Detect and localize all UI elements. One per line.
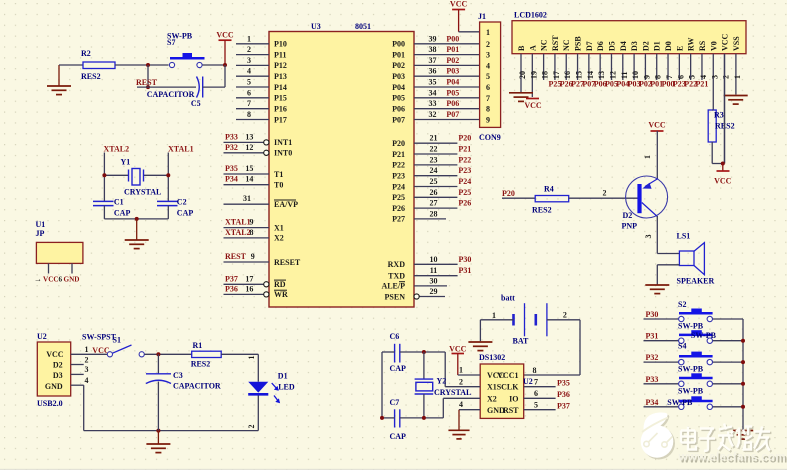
- LCD pin 8 D1: [650, 41, 663, 88]
- svg-text:8: 8: [533, 366, 537, 375]
- svg-text:1: 1: [643, 155, 652, 159]
- wire: C5 to VCC node: [203, 86, 225, 88]
- svg-text:1: 1: [247, 356, 256, 360]
- LCD pin 16 NC: [560, 39, 573, 88]
- junction: [156, 429, 160, 433]
- power VCC (transistor): [648, 121, 666, 132]
- pin 16 WR, net P36: [224, 284, 289, 299]
- display LCD1602: [512, 11, 746, 54]
- svg-text:6: 6: [534, 389, 538, 398]
- svg-text:SW-PB: SW-PB: [667, 398, 693, 407]
- svg-text:2: 2: [563, 311, 567, 320]
- svg-text:P22: P22: [458, 155, 471, 164]
- wire: ground to R2: [59, 64, 83, 66]
- svg-text:20: 20: [518, 71, 527, 79]
- svg-text:16: 16: [245, 284, 253, 293]
- svg-text:8051: 8051: [355, 22, 371, 31]
- svg-text:P26: P26: [458, 199, 471, 208]
- watermark logo: [641, 412, 675, 459]
- wire: GND down to rail: [83, 385, 85, 430]
- svg-text:9: 9: [486, 116, 490, 125]
- svg-text:RST: RST: [503, 406, 519, 415]
- capacitor C5: [147, 77, 203, 109]
- svg-text:32: 32: [429, 110, 437, 119]
- wire: crystal horizontal left: [104, 174, 128, 176]
- pin 35 P04, wire to J1: [392, 78, 479, 92]
- DS1302 pin 1: [458, 366, 480, 376]
- svg-text:A: A: [528, 45, 537, 51]
- wire: P34 to key: [644, 406, 679, 408]
- junction: [156, 352, 160, 356]
- LCD pin 9 D2: [639, 41, 652, 88]
- svg-text:P24: P24: [458, 177, 471, 186]
- power VCC (R3): [714, 164, 732, 186]
- svg-text:P37: P37: [225, 274, 238, 283]
- svg-text:P26: P26: [392, 204, 405, 213]
- svg-text:XTAL2: XTAL2: [225, 228, 251, 237]
- svg-text:P22: P22: [392, 161, 405, 170]
- svg-text:VCC: VCC: [524, 101, 542, 110]
- svg-text:P02: P02: [392, 61, 405, 70]
- svg-text:VCC: VCC: [648, 121, 666, 130]
- svg-text:RD: RD: [274, 280, 286, 289]
- pin 30 ALE/P: [381, 276, 447, 290]
- wire: VCC to J1 pin1: [459, 31, 480, 33]
- svg-text:P05: P05: [446, 88, 459, 97]
- svg-text:SCLK: SCLK: [497, 383, 520, 392]
- wire: node down to REST: [147, 65, 149, 87]
- wire: key to bus: [713, 340, 743, 342]
- pin 23 P22: [392, 155, 471, 169]
- svg-text:P10: P10: [274, 40, 287, 49]
- junction: [102, 173, 106, 177]
- wire: C6 left: [382, 351, 395, 353]
- svg-text:7: 7: [534, 378, 538, 387]
- junction: [741, 405, 745, 409]
- svg-text:V0: V0: [709, 41, 718, 51]
- svg-text:P33: P33: [646, 375, 659, 384]
- wire: LCD VCC pin down: [723, 54, 725, 164]
- LCD pin 7 D0: [662, 41, 675, 88]
- capacitor C2: [157, 198, 193, 218]
- svg-text:P34: P34: [646, 398, 659, 407]
- wire: R4 to base, pin 2: [569, 189, 638, 199]
- LCD pin 17 RST: [548, 35, 561, 89]
- svg-text:30: 30: [430, 276, 438, 285]
- pin 22 P21: [392, 145, 471, 159]
- IC DS1302: [479, 353, 524, 418]
- svg-text:33: 33: [429, 99, 437, 108]
- bottom edge line: [0, 469, 787, 470]
- wire: battery pin 1: [480, 311, 513, 320]
- power VCC (reset): [216, 31, 234, 66]
- svg-text:BAT: BAT: [513, 337, 530, 346]
- junction: [380, 416, 384, 420]
- svg-text:D4: D4: [619, 41, 628, 51]
- svg-text:C5: C5: [191, 99, 201, 108]
- ground (speaker): [645, 285, 669, 294]
- resistor R3: [708, 110, 734, 142]
- pin 17 RD, net P37: [224, 274, 287, 289]
- LCD pin 1 VSS: [732, 36, 742, 95]
- svg-text:DS1302: DS1302: [479, 353, 505, 362]
- svg-text:RS: RS: [698, 40, 707, 51]
- wire: C7 left + left riser: [382, 417, 395, 419]
- DS1302 pin 2: [445, 378, 480, 387]
- svg-text:10: 10: [631, 71, 640, 79]
- svg-text:RESET: RESET: [274, 258, 301, 267]
- U2 pin 2: [71, 355, 89, 364]
- svg-text:VCC: VCC: [450, 0, 468, 9]
- pin 9 RESET, net REST: [224, 252, 301, 267]
- wire: pin4 to ground: [458, 410, 460, 430]
- pin 2 P11: [236, 45, 286, 59]
- svg-text:5: 5: [247, 78, 251, 87]
- svg-text:X1: X1: [487, 383, 497, 392]
- pin 36 P03, wire to J1: [392, 67, 479, 81]
- svg-text:D2: D2: [623, 211, 633, 220]
- pin 18 X2, net XTAL2: [224, 228, 284, 243]
- svg-text:D2: D2: [53, 361, 63, 370]
- svg-text:WR: WR: [274, 290, 288, 299]
- svg-text:6: 6: [486, 83, 490, 92]
- svg-text:P07: P07: [392, 115, 405, 124]
- svg-text:9: 9: [251, 252, 255, 261]
- svg-text:RW: RW: [687, 38, 696, 52]
- svg-text:15: 15: [575, 71, 584, 79]
- switch S7 SW-PB: [167, 32, 205, 68]
- svg-text:XTAL1: XTAL1: [225, 218, 251, 227]
- pin 13 INT1, net P33: [224, 132, 293, 147]
- junction: [422, 416, 426, 420]
- pin 15 T1, net P35: [224, 164, 284, 179]
- pin 3 P12: [236, 56, 287, 70]
- svg-text:6: 6: [247, 88, 251, 97]
- svg-text:12: 12: [608, 71, 617, 79]
- svg-text:GND: GND: [45, 382, 63, 391]
- svg-text:11: 11: [430, 266, 438, 275]
- svg-text:CRYSTAL: CRYSTAL: [434, 388, 471, 397]
- pin 25 P24: [392, 177, 471, 191]
- svg-text:P32: P32: [646, 353, 659, 362]
- svg-text:P21: P21: [458, 145, 471, 154]
- svg-text:VCC1: VCC1: [497, 371, 518, 380]
- power VCC (J1): [450, 0, 468, 32]
- pin 8 P17: [236, 110, 287, 124]
- svg-text:NC: NC: [562, 39, 571, 51]
- svg-text:7: 7: [247, 99, 251, 108]
- svg-text:S2: S2: [678, 300, 686, 309]
- LCD pin 13 D6: [594, 41, 607, 88]
- resistor R4: [532, 185, 569, 215]
- svg-text:SPEAKER: SPEAKER: [677, 277, 715, 286]
- svg-text:CAP: CAP: [114, 209, 131, 218]
- svg-text:R3: R3: [714, 111, 724, 120]
- svg-text:T0: T0: [274, 181, 283, 190]
- diode D1 LED: [248, 371, 295, 403]
- svg-text:P25: P25: [392, 193, 405, 202]
- svg-text:22: 22: [430, 145, 438, 154]
- svg-text:1: 1: [247, 34, 251, 43]
- svg-text:R2: R2: [81, 49, 91, 58]
- svg-text:P16: P16: [274, 105, 287, 114]
- svg-text:D2: D2: [641, 41, 650, 51]
- svg-text:P15: P15: [274, 94, 287, 103]
- svg-text:XTAL2: XTAL2: [104, 145, 130, 154]
- svg-text:SW-PB: SW-PB: [678, 322, 704, 331]
- junction: [422, 350, 426, 354]
- transistor D2 PNP: [622, 176, 668, 231]
- LCD pin 6 E: [673, 46, 686, 89]
- LCD pin 4 RS: [696, 40, 709, 88]
- svg-text:4: 4: [486, 61, 490, 70]
- svg-text:U3: U3: [311, 22, 321, 31]
- ground (LCD pin1 VSS): [724, 96, 748, 105]
- svg-text:P35: P35: [225, 164, 238, 173]
- svg-text:3: 3: [247, 56, 251, 65]
- wire: key to bus: [713, 406, 743, 408]
- switch SW-PB (P32): [679, 352, 713, 365]
- wire: bottom rail: [84, 430, 259, 432]
- LCD pin 11 D4: [616, 41, 629, 88]
- svg-text:13: 13: [597, 71, 606, 79]
- DS1302 pin 5, net P37: [524, 400, 570, 410]
- svg-text:P14: P14: [274, 83, 287, 92]
- pin 37 P02, wire to J1: [392, 56, 479, 70]
- pin 11 TXD, net P31: [388, 266, 471, 280]
- LCD pin 14 D7: [582, 41, 595, 88]
- svg-text:31: 31: [243, 194, 251, 203]
- resistor R1: [191, 341, 222, 369]
- pin 29 PSEN: [385, 287, 445, 301]
- svg-text:SW-SPST: SW-SPST: [82, 333, 117, 342]
- crystal Y2: [415, 352, 472, 418]
- wire: R3 bottom to junction: [711, 142, 713, 164]
- switch SW-PB (P34): [679, 396, 713, 409]
- battery BAT: [501, 294, 547, 346]
- svg-text:X2: X2: [487, 394, 497, 403]
- pin 31 EA/VP: [224, 194, 299, 209]
- wire: to speaker: [657, 253, 679, 255]
- svg-text:10: 10: [430, 255, 438, 264]
- svg-text:P35: P35: [557, 379, 570, 388]
- svg-text:21: 21: [430, 134, 438, 143]
- svg-text:P02: P02: [446, 56, 459, 65]
- svg-text:1: 1: [459, 366, 463, 375]
- svg-text:C1: C1: [114, 198, 124, 207]
- wire: battery pin 2: [547, 311, 580, 320]
- svg-text:C2: C2: [177, 198, 187, 207]
- wire: P33 to key: [644, 383, 679, 385]
- svg-text:P01: P01: [392, 50, 405, 59]
- switch SW-PB (P30): [679, 309, 713, 322]
- svg-text:C7: C7: [390, 398, 400, 407]
- svg-text:17: 17: [552, 71, 561, 79]
- IC U3 8051: [269, 32, 414, 308]
- ground (key bus): [733, 431, 753, 440]
- svg-text:2: 2: [603, 189, 607, 198]
- ground (USB rail): [146, 431, 170, 453]
- svg-text:P00: P00: [392, 40, 405, 49]
- crystal Y1: [121, 158, 162, 197]
- svg-text:EA/VP: EA/VP: [274, 200, 298, 209]
- capacitor C6: [390, 332, 407, 373]
- svg-text:18: 18: [541, 71, 550, 79]
- svg-text:P06: P06: [446, 99, 459, 108]
- svg-text:2: 2: [85, 355, 89, 364]
- svg-text:VCC: VCC: [721, 33, 730, 51]
- svg-text:2: 2: [247, 45, 251, 54]
- pin 28 P27: [392, 209, 446, 223]
- svg-text:www.elecfans.com: www.elecfans.com: [678, 452, 786, 464]
- LCD pin 5 RW: [684, 38, 697, 89]
- svg-text:P33: P33: [225, 132, 238, 141]
- pin 12 INT0, net P32: [224, 143, 293, 158]
- DS1302 pin 6, net P36: [524, 389, 570, 399]
- svg-text:VCC: VCC: [449, 345, 467, 354]
- svg-text:P05: P05: [392, 94, 405, 103]
- capacitor C7: [390, 398, 407, 441]
- switch SW-PB (P33): [679, 373, 713, 386]
- ground (battery): [468, 342, 492, 351]
- svg-text:CAP: CAP: [177, 209, 194, 218]
- svg-text:P04: P04: [446, 78, 459, 87]
- svg-text:P13: P13: [274, 72, 287, 81]
- svg-text:37: 37: [429, 56, 437, 65]
- U2 pin 3: [71, 365, 89, 374]
- svg-text:P00: P00: [446, 34, 459, 43]
- svg-text:U2: U2: [37, 332, 47, 341]
- LCD pin 3 V0: [709, 41, 719, 110]
- wire: XTAL1 vertical: [167, 153, 169, 202]
- wire: speaker return: [657, 264, 679, 266]
- svg-text:XTAL1: XTAL1: [168, 145, 194, 154]
- svg-text:SW-PB: SW-PB: [678, 365, 704, 374]
- svg-text:J1: J1: [478, 12, 486, 21]
- svg-text:PSB: PSB: [574, 36, 583, 51]
- svg-text:23: 23: [430, 155, 438, 164]
- svg-text:26: 26: [430, 188, 438, 197]
- svg-text:8: 8: [247, 110, 251, 119]
- wire: LED to rail, pin 2: [247, 396, 258, 431]
- junction: [146, 63, 150, 67]
- svg-text:3: 3: [85, 365, 89, 374]
- svg-text:INT1: INT1: [274, 138, 292, 147]
- junction: [146, 85, 150, 89]
- junction: [741, 339, 745, 343]
- svg-text:P23: P23: [458, 166, 471, 175]
- svg-text:35: 35: [429, 78, 437, 87]
- pin 38 P01, wire to J1: [392, 45, 479, 59]
- junction: [166, 173, 170, 177]
- wire: crystal horizontal right: [144, 174, 169, 176]
- svg-text:LCD1602: LCD1602: [514, 11, 547, 20]
- junction: [721, 162, 725, 166]
- wire: key to bus: [713, 318, 743, 320]
- svg-text:R1: R1: [193, 341, 203, 350]
- switch S1 SW-SPST: [82, 333, 144, 357]
- svg-text:VCC: VCC: [216, 31, 234, 40]
- LCD pin 15 PSB: [571, 36, 584, 89]
- wire: P30 to key: [644, 318, 679, 320]
- pin 26 P25: [392, 188, 471, 202]
- svg-text:2: 2: [247, 425, 256, 429]
- svg-text:RXD: RXD: [388, 260, 406, 269]
- LCD pin 2 VCC: [721, 33, 731, 163]
- pin 19 X1, net XTAL1: [224, 218, 284, 233]
- svg-text:1: 1: [85, 345, 89, 354]
- svg-text:Y2: Y2: [437, 376, 447, 385]
- svg-text:16: 16: [563, 71, 572, 79]
- pin 7 P16: [236, 99, 287, 113]
- svg-text:19: 19: [529, 71, 538, 79]
- svg-text:15: 15: [245, 164, 253, 173]
- svg-text:1: 1: [492, 311, 496, 320]
- svg-text:P20: P20: [458, 134, 471, 143]
- svg-text:LS1: LS1: [677, 232, 691, 241]
- svg-text:28: 28: [430, 209, 438, 218]
- svg-text:VCC: VCC: [46, 350, 64, 359]
- svg-text:E: E: [675, 46, 684, 51]
- svg-text:CRYSTAL: CRYSTAL: [124, 188, 161, 197]
- svg-text:14: 14: [245, 175, 253, 184]
- svg-text:P31: P31: [459, 266, 472, 275]
- junction: [741, 382, 745, 386]
- wire: P20 to R4: [502, 197, 535, 199]
- svg-text:P37: P37: [557, 401, 570, 410]
- svg-text:P30: P30: [459, 255, 472, 264]
- pin 34 P05, wire to J1: [392, 88, 479, 102]
- wire: VCC to collector, pin 1: [643, 131, 657, 179]
- svg-text:D0: D0: [664, 41, 673, 51]
- wire: C1 down: [103, 206, 105, 219]
- svg-text:P31: P31: [646, 332, 659, 341]
- svg-text:PSEN: PSEN: [385, 292, 406, 301]
- svg-text:17: 17: [245, 274, 253, 283]
- svg-text:SW-PB: SW-PB: [678, 386, 704, 395]
- ground (reset R2): [47, 65, 71, 95]
- svg-text:P17: P17: [274, 115, 287, 124]
- svg-text:D6: D6: [596, 41, 605, 51]
- wire: C7 right to X2: [400, 417, 444, 419]
- svg-text:X2: X2: [274, 234, 284, 243]
- svg-text:11: 11: [620, 71, 629, 79]
- svg-text:S1: S1: [113, 336, 121, 345]
- svg-text:VCC: VCC: [43, 276, 59, 284]
- pin 24 P23: [392, 166, 471, 180]
- svg-text:P32: P32: [225, 143, 238, 152]
- svg-text:LED: LED: [278, 382, 295, 391]
- svg-text:D1: D1: [653, 41, 662, 51]
- connector U1 JP: [34, 220, 83, 284]
- svg-text:NC: NC: [540, 39, 549, 51]
- svg-text:VCC: VCC: [714, 177, 732, 186]
- power VCC (LCD pin19 A): [526, 98, 539, 100]
- pin 6 P15: [236, 88, 287, 102]
- svg-text:4: 4: [247, 67, 251, 76]
- svg-text:P06: P06: [392, 105, 405, 114]
- wire: R1 to LED, pin 1: [221, 354, 258, 359]
- wire: P32 to key: [644, 361, 679, 363]
- svg-text:D3: D3: [630, 41, 639, 51]
- svg-text:B: B: [517, 45, 526, 51]
- svg-text:R4: R4: [544, 185, 554, 194]
- svg-text:D1: D1: [278, 371, 288, 380]
- wire: key bus: [742, 319, 744, 430]
- pin 32 P07, wire to J1: [392, 110, 479, 124]
- svg-text:REST: REST: [225, 252, 247, 261]
- svg-text:IO: IO: [509, 394, 518, 403]
